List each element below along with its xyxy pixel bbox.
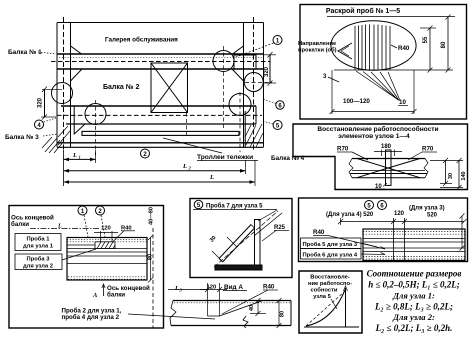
callout circle 2 bbox=[96, 206, 105, 215]
leader callout 1 dashed bbox=[236, 43, 274, 57]
gallery beam top bbox=[57, 53, 264, 55]
callout circle 5 right bbox=[273, 121, 282, 130]
lower beam top line bbox=[61, 105, 256, 107]
box D border bbox=[299, 198, 468, 262]
svg-text:120: 120 bbox=[101, 226, 111, 232]
right column inner vertical bbox=[244, 111, 246, 147]
buffer block rect right of gallery wheel bbox=[234, 55, 256, 69]
svg-text:R40: R40 bbox=[313, 229, 325, 236]
beam stipple bottom rows bbox=[363, 256, 465, 258]
svg-text:180: 180 bbox=[381, 144, 392, 150]
main crane elevation drawing top-left bbox=[42, 17, 272, 155]
svg-text:R25: R25 bbox=[274, 225, 286, 231]
svg-text:элементов узлов 1—4: элементов узлов 1—4 bbox=[338, 133, 410, 140]
diagonal probe strip line 1 bbox=[219, 225, 251, 259]
svg-text:Восстановление работоспособнос: Восстановление работоспособности bbox=[317, 125, 438, 133]
svg-text:прокатки (об): прокатки (об) bbox=[298, 47, 337, 54]
box F: graph Восстановление узла 5 bbox=[299, 271, 362, 333]
dim 80 vertical bbox=[278, 301, 280, 326]
wheel circle node left column bbox=[52, 83, 73, 104]
left column outer line bbox=[56, 23, 58, 148]
rolling direction chevron bbox=[338, 43, 352, 59]
svg-text:Балка № 1: Балка № 1 bbox=[8, 49, 42, 56]
leader from проба text to view A beam bbox=[128, 314, 215, 319]
callout circle 1 bbox=[78, 206, 87, 215]
wheel circle node right column bbox=[244, 73, 263, 92]
leader lines from title bbox=[254, 210, 282, 236]
graph horizontal axis bbox=[304, 326, 359, 328]
hatch left column base bbox=[58, 126, 70, 145]
converging arrows to label 10 bbox=[356, 71, 400, 101]
middle break zigzag bbox=[243, 316, 248, 328]
dim 40 vertical bbox=[257, 301, 259, 314]
beam flange lines bbox=[352, 170, 425, 172]
beam stipple top rows bbox=[363, 231, 465, 233]
beam stipple top bbox=[67, 239, 147, 241]
wheel circle node gallery right bbox=[213, 51, 234, 72]
svg-text:10: 10 bbox=[399, 99, 406, 106]
leader trolley to rail bbox=[163, 138, 222, 153]
dashed inner right border bbox=[152, 228, 154, 328]
dashed axis through gallery wheel bbox=[223, 46, 225, 130]
vertical plate bbox=[255, 220, 261, 266]
left column inner line bbox=[70, 23, 72, 148]
axis dash through strip bbox=[214, 211, 278, 267]
gusset below-right bbox=[232, 69, 244, 81]
box B: Раскрой проб № 1-5 (top right) bbox=[298, 5, 467, 120]
beam web lines bbox=[363, 238, 465, 240]
box D: probes 5-6 beam (right middle) bbox=[299, 198, 468, 262]
top handrail line bbox=[57, 22, 264, 24]
svg-text:L₂ ≥ 0,8L; L₃ ≥ 0,2L;: L₂ ≥ 0,8L; L₃ ≥ 0,2L; bbox=[374, 302, 453, 312]
callout circle 5 bbox=[365, 201, 374, 210]
extension verticals 120 bbox=[207, 283, 209, 316]
X brace diagonal 2 bbox=[151, 63, 188, 113]
beam bottom line bbox=[171, 325, 291, 327]
svg-text:проба 4 для узла 2: проба 4 для узла 2 bbox=[62, 314, 120, 321]
svg-text:Галерея обслуживания: Галерея обслуживания bbox=[105, 36, 178, 44]
blank ellipse bbox=[331, 21, 416, 70]
beam stipple bottom bbox=[68, 276, 146, 278]
dim L line bbox=[254, 160, 256, 186]
X-braced panel box bbox=[151, 63, 188, 113]
svg-text:1: 1 bbox=[79, 155, 81, 160]
svg-text:Для узла 2:: Для узла 2: bbox=[392, 312, 435, 322]
svg-text:балки: балки bbox=[107, 292, 125, 299]
svg-text:L: L bbox=[174, 285, 179, 292]
left step vertical bbox=[73, 106, 75, 125]
beam right end bbox=[290, 301, 292, 326]
graph leader from text bbox=[331, 299, 337, 309]
dim line row bbox=[340, 218, 342, 225]
box G border bbox=[9, 206, 164, 329]
svg-text:Проба 3: Проба 3 bbox=[27, 256, 51, 263]
dashed axis through lower right wheel bbox=[239, 92, 241, 152]
box C L-shaped border bbox=[293, 124, 468, 190]
right break zigzag bbox=[424, 159, 428, 178]
gusset above-right bbox=[233, 46, 244, 54]
svg-text:40: 40 bbox=[249, 305, 255, 311]
leader arrows to beam bbox=[361, 243, 385, 255]
gallery beam centre dashed bbox=[51, 61, 270, 63]
lower beam centre dashed bbox=[57, 114, 262, 116]
callout circle 6 bbox=[378, 201, 387, 210]
axis dash-dot line bbox=[30, 228, 100, 230]
callout circle 5 in title bbox=[194, 200, 203, 209]
view A beam (bottom centre) bbox=[168, 283, 291, 328]
svg-text:80: 80 bbox=[441, 41, 447, 48]
dim L2 line bbox=[245, 160, 247, 174]
svg-text:L: L bbox=[72, 152, 77, 159]
svg-text:Раскрой проб № 1—5: Раскрой проб № 1—5 bbox=[326, 7, 400, 15]
wheel circle node lower-left beam bbox=[85, 104, 106, 125]
right dim 320 vertical bbox=[269, 55, 271, 83]
base plate filled bbox=[215, 265, 262, 270]
svg-text:А: А bbox=[92, 292, 98, 299]
svg-text:120: 120 bbox=[394, 211, 405, 217]
svg-text:(Для узла 4) 520: (Для узла 4) 520 bbox=[326, 212, 374, 218]
box F border bbox=[299, 271, 362, 333]
trolley rail bar bbox=[82, 131, 239, 135]
svg-text:(Для узла 3): (Для узла 3) bbox=[409, 206, 445, 212]
svg-text:40—80: 40—80 bbox=[149, 207, 155, 225]
svg-text:Балка № 2: Балка № 2 bbox=[103, 83, 139, 91]
svg-text:Балка № 3: Балка № 3 bbox=[5, 134, 39, 141]
lower beam bottom line bbox=[66, 123, 256, 125]
centre weld bar bbox=[386, 150, 392, 185]
callout circle 2 bottom bbox=[141, 149, 150, 158]
gallery beam inner stipple bbox=[59, 57, 262, 59]
bottom chord upper line bbox=[57, 142, 264, 144]
svg-text:узла 5: узла 5 bbox=[313, 294, 331, 300]
dashed horizontal through right column wheel bbox=[245, 82, 272, 84]
left break zigzag bbox=[349, 159, 353, 178]
graph vertical axis with arrow bbox=[345, 288, 347, 327]
axis arrow below beam bbox=[103, 285, 105, 297]
callout circle 6 right bbox=[276, 101, 284, 109]
svg-text:R40: R40 bbox=[398, 45, 410, 52]
bowtie patch left triangle bbox=[357, 159, 388, 178]
svg-text:80: 80 bbox=[280, 311, 286, 317]
svg-text:h ≤ 0,2–0,5H; L₁ ≤ 0,2L;: h ≤ 0,2–0,5H; L₁ ≤ 0,2L; bbox=[368, 280, 460, 290]
svg-text:55: 55 bbox=[423, 36, 429, 43]
leader Балка №1 dotted bbox=[38, 52, 56, 54]
beam body bbox=[363, 229, 465, 261]
left column axis dashed bbox=[63, 17, 65, 152]
box C: Восстановление работоспособности элементов узлов 1-4 bbox=[293, 124, 468, 190]
svg-text:L: L bbox=[209, 174, 214, 181]
box B border bbox=[300, 5, 467, 120]
svg-text:140: 140 bbox=[461, 171, 467, 180]
title underline bbox=[193, 209, 277, 211]
lower beam right end vertical bbox=[255, 106, 257, 124]
bowtie patch right triangle bbox=[388, 159, 420, 178]
svg-text:Троллеи тележки: Троллеи тележки bbox=[197, 154, 253, 161]
leader callout 5 dotted bbox=[262, 121, 273, 124]
beam top stipple bbox=[174, 302, 290, 304]
ratios text block bbox=[367, 269, 462, 334]
beam top line bbox=[173, 300, 291, 302]
bottom chord lower line bbox=[57, 146, 264, 148]
left break zigzag bbox=[170, 301, 176, 326]
box E: Проба 7 для узла 5 (bottom centre) bbox=[190, 199, 292, 278]
left lower gusset bbox=[74, 124, 85, 134]
svg-text:Проба 1: Проба 1 bbox=[27, 236, 51, 243]
gusset below-left bbox=[71, 69, 83, 81]
svg-text:для узла 2: для узла 2 bbox=[23, 264, 53, 270]
svg-text:R70: R70 bbox=[337, 146, 349, 153]
right dims 30 and 140 bbox=[430, 160, 463, 162]
svg-text:L: L bbox=[57, 224, 62, 230]
box G: probes 1-4 end beam (bottom left) bbox=[9, 206, 215, 329]
diagonal probe strip line 2 bbox=[223, 228, 255, 262]
dashed vertical at X-box right edge bbox=[186, 113, 188, 137]
svg-text:Восстановле-: Восстановле- bbox=[310, 275, 350, 281]
strip end caps bbox=[219, 225, 255, 263]
svg-text:320: 320 bbox=[38, 97, 44, 108]
hatched patch bbox=[95, 242, 115, 249]
wheel circle node lower right bbox=[229, 94, 251, 116]
label box Проба 3 bbox=[15, 254, 62, 270]
leader callout 6 dotted bbox=[263, 99, 276, 104]
svg-text:Соотношение размеров: Соотношение размеров bbox=[367, 269, 462, 279]
svg-text:Проба 7 для узла 5: Проба 7 для узла 5 bbox=[206, 203, 263, 210]
graph curve bbox=[306, 290, 345, 326]
gusset above-left bbox=[71, 46, 82, 54]
leader callout 4 bbox=[44, 118, 57, 122]
hatch left support bbox=[42, 137, 64, 153]
callout circle 1 top right bbox=[273, 36, 282, 45]
graph dashed chord bbox=[306, 292, 344, 326]
svg-text:L₂ ≤ 0,2L; L₃ ≥ 0,2h.: L₂ ≤ 0,2L; L₃ ≥ 0,2h. bbox=[375, 323, 453, 333]
right column axis dashed bbox=[253, 17, 255, 152]
notch step bbox=[208, 301, 264, 317]
annotations of main drawing bbox=[5, 36, 305, 187]
leader Балка №3 dotted bbox=[43, 134, 57, 136]
right column inner line bbox=[243, 23, 245, 148]
dim 80 vertical bbox=[447, 17, 449, 70]
leaders from callouts bbox=[84, 215, 105, 237]
label box Проба 1 bbox=[15, 234, 61, 251]
box E border bbox=[190, 199, 292, 278]
svg-text:R40: R40 bbox=[263, 284, 275, 291]
dim line L3 bbox=[168, 289, 208, 291]
svg-text:для узла 1: для узла 1 bbox=[23, 244, 54, 250]
label box Проба 6 bbox=[301, 249, 362, 260]
dashed axis through lower-left wheel bbox=[95, 100, 97, 155]
probe strips vertical lines bbox=[355, 25, 390, 71]
hatch right support bbox=[245, 124, 263, 147]
svg-text:Для узла 1:: Для узла 1: bbox=[392, 291, 435, 301]
dim L1 line bbox=[63, 150, 65, 186]
svg-text:100—120: 100—120 bbox=[343, 98, 370, 105]
svg-text:Вид А: Вид А bbox=[224, 284, 243, 291]
dim 30 ticks bbox=[212, 237, 237, 261]
svg-text:30: 30 bbox=[448, 173, 454, 179]
label box Проба 5 bbox=[301, 238, 362, 249]
dim 55 vertical bbox=[429, 28, 431, 70]
svg-text:Проба 5 для узла 3: Проба 5 для узла 3 bbox=[303, 241, 358, 248]
beam web lines bbox=[67, 244, 95, 246]
callout circle 4 left bbox=[35, 120, 44, 129]
svg-text:Направление: Направление bbox=[298, 41, 337, 47]
svg-text:520: 520 bbox=[427, 213, 438, 219]
svg-text:80: 80 bbox=[148, 254, 154, 260]
beam rect bbox=[67, 238, 147, 281]
gallery beam bottom bbox=[57, 68, 264, 70]
right vertical dim bbox=[461, 216, 463, 248]
X brace diagonal 1 bbox=[151, 63, 188, 113]
right column outer line bbox=[263, 23, 265, 148]
svg-text:Проба 6 для узла 4: Проба 6 для узла 4 bbox=[303, 251, 358, 258]
svg-text:балки: балки bbox=[11, 221, 29, 228]
leader from Проба 3 box bbox=[62, 249, 96, 260]
beam flange top line bbox=[352, 158, 425, 160]
svg-text:L: L bbox=[182, 163, 187, 170]
120 strip verticals bbox=[393, 218, 395, 261]
svg-text:собности: собности bbox=[311, 287, 338, 294]
svg-text:R70: R70 bbox=[422, 146, 434, 153]
left dim 320 vertical line bbox=[44, 89, 46, 117]
svg-text:320: 320 bbox=[264, 66, 270, 77]
